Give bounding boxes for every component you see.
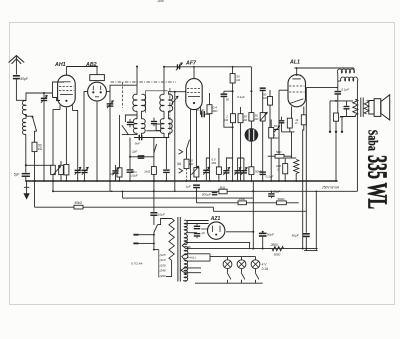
wire antenna lead bbox=[15, 56, 17, 74]
mains lead N bbox=[139, 242, 154, 244]
capacitor 5000pF b bbox=[194, 233, 200, 234]
wire 4ohm down bbox=[335, 121, 337, 181]
speaker cone bbox=[381, 95, 390, 120]
wire k6 to bus dashed bbox=[186, 169, 188, 181]
trimmer arrow C1 bbox=[41, 96, 47, 103]
lamp 1 switch bbox=[227, 272, 231, 279]
svg-text:kΩ: kΩ bbox=[244, 118, 248, 122]
wire top drop to pot bbox=[250, 67, 252, 113]
svg-text:Ω: Ω bbox=[277, 167, 280, 171]
wire tap column bbox=[158, 250, 160, 278]
transformer T1 secondary HV bbox=[184, 220, 187, 233]
wire AH1 cathode lead bbox=[53, 105, 60, 165]
capacitor det bbox=[151, 121, 157, 122]
svg-text:50µF: 50µF bbox=[267, 233, 275, 237]
resistor 50k column k1 bbox=[117, 168, 122, 177]
inductor output primary a bbox=[337, 69, 354, 73]
wire AF7 top cap bbox=[193, 67, 195, 78]
wire plate link column bbox=[329, 101, 331, 132]
resistor 4 ohm bbox=[334, 113, 339, 121]
capacitor 50pF antenna bbox=[13, 75, 20, 77]
capacitor 2uF bbox=[138, 155, 145, 156]
wire output bottom loop bbox=[340, 115, 355, 117]
wire AZ1 feed column bbox=[252, 181, 254, 249]
wire IFT2 bottom bbox=[163, 133, 165, 138]
wire IFT1 link left bbox=[136, 111, 138, 119]
wire main ground bus bbox=[26, 180, 338, 182]
wire AL1 top cap bbox=[296, 68, 298, 76]
wire AZ1 output bbox=[226, 231, 253, 233]
resistor 50k AVC bbox=[32, 142, 37, 151]
resistor det load bbox=[156, 124, 161, 131]
wire 50uF b down bbox=[305, 237, 307, 250]
wire AB2 right lead bbox=[106, 90, 110, 92]
svg-text:5kΩ: 5kΩ bbox=[276, 150, 282, 154]
wire line y211 bbox=[213, 210, 306, 212]
svg-text:kΩ: kΩ bbox=[224, 118, 229, 122]
wire choke left end bbox=[337, 73, 339, 91]
svg-text:5A: 5A bbox=[177, 162, 182, 166]
svg-text:0.1µF: 0.1µF bbox=[197, 108, 205, 112]
resistor 2k det bbox=[151, 167, 156, 175]
wire line y207 bbox=[35, 206, 214, 208]
svg-text:kΩ: kΩ bbox=[263, 96, 268, 100]
resistor AL1 left bbox=[287, 118, 292, 128]
resistor cluster cathode bbox=[51, 165, 56, 174]
resistor 200 ohm cathode bbox=[283, 164, 288, 174]
wire q3 to bus bbox=[232, 123, 234, 181]
wire cap stub bbox=[129, 119, 131, 122]
capacitor tone b bbox=[344, 106, 350, 107]
wire cathode R branch bbox=[284, 158, 286, 164]
wire plate feed IFT2 bbox=[163, 67, 165, 95]
svg-text:(240: (240 bbox=[160, 269, 166, 273]
speaker magnet bbox=[374, 99, 381, 117]
voice coil loop bbox=[369, 101, 374, 115]
lamp 3 switch bbox=[255, 272, 259, 279]
capacitor 5000pF a bbox=[196, 224, 198, 226]
svg-text:AL1: AL1 bbox=[289, 60, 300, 66]
wire S2 bottom bbox=[122, 134, 138, 136]
wire plate link bbox=[330, 100, 353, 102]
switch mains bbox=[154, 225, 158, 233]
wire terminal stub bbox=[341, 117, 343, 132]
svg-text:(220: (220 bbox=[158, 0, 164, 3]
inductor IFT1 lower secondary bbox=[142, 119, 146, 134]
svg-text:(200: (200 bbox=[160, 274, 166, 278]
junction dots top wire bbox=[96, 66, 98, 68]
wire switch to resistor bbox=[35, 131, 37, 142]
resistor 5k feedback bbox=[268, 155, 275, 157]
wire plate feed IFT1 bbox=[136, 67, 138, 95]
wire grid leak down bbox=[270, 105, 279, 129]
wire zigzag to bus bbox=[295, 174, 297, 182]
resistor cluster La bbox=[59, 165, 64, 174]
wire k1 to bus bbox=[119, 177, 121, 181]
capacitor cluster c-a bbox=[205, 173, 207, 181]
capacitor IFT1 tap bbox=[127, 122, 133, 123]
wire y202.8 riser bbox=[196, 191, 198, 203]
wire column k1 bbox=[119, 115, 121, 168]
svg-text:AB2: AB2 bbox=[85, 62, 97, 68]
wire cap to bus2 bbox=[196, 188, 198, 191]
wire bus2 left riser bbox=[52, 181, 54, 191]
svg-text:50pF: 50pF bbox=[20, 77, 29, 81]
svg-text:5nF: 5nF bbox=[135, 142, 141, 146]
wire cap to R bbox=[205, 113, 209, 115]
wire lamp bottom bus bbox=[195, 282, 263, 284]
trimmer arrow AL1 bias bbox=[274, 126, 280, 133]
svg-text:(150: (150 bbox=[160, 263, 166, 267]
transformer T1 secondary heater main bbox=[184, 260, 187, 281]
lamp 2 leads bbox=[241, 257, 243, 260]
tube AZ1 bbox=[208, 222, 225, 239]
wire AL1 lead left bbox=[291, 107, 293, 119]
wire grid line AH1 bbox=[26, 93, 53, 101]
junction dots B+ bbox=[252, 248, 254, 250]
resistor 2k q3 bbox=[231, 114, 236, 123]
field coil 280V bbox=[272, 246, 284, 250]
svg-text:0.1µF: 0.1µF bbox=[237, 95, 245, 99]
tube AB2 top electrode bbox=[90, 75, 105, 81]
junction dots bus2 bbox=[111, 190, 113, 192]
capacitor k5 bbox=[163, 169, 170, 170]
svg-text:0.1µF: 0.1µF bbox=[341, 87, 349, 91]
wire AL1 grid bbox=[279, 89, 288, 91]
wire AH1 screen lead bbox=[73, 105, 78, 169]
wire IFT2 lower right bottom bbox=[168, 133, 170, 138]
capacitor 0.1uF q4 top bbox=[260, 87, 266, 89]
wire line y198 bbox=[123, 197, 254, 199]
capacitor padding trimmer bbox=[43, 93, 45, 97]
svg-text:0.1µF: 0.1µF bbox=[266, 175, 274, 179]
trimmer arrow c-b bbox=[223, 168, 229, 175]
capacitor 0.1uF coupling bbox=[224, 90, 233, 92]
capacitor 25uF bbox=[270, 191, 272, 193]
wire AL1 bias link bbox=[282, 131, 295, 133]
inductor L1 antenna coil bbox=[22, 101, 26, 115]
wire AF7 suppressor bbox=[196, 109, 198, 181]
trimmer arrow c-d bbox=[241, 168, 247, 175]
wire cathode R to bus bbox=[52, 175, 54, 181]
wire AB2 left lead bbox=[84, 92, 88, 170]
lamp 2 bbox=[237, 260, 246, 269]
wire k5 to bus bbox=[165, 173, 167, 181]
wire right column to bus2 bbox=[356, 100, 358, 192]
wire B+ line bbox=[186, 248, 318, 250]
wire bus2 AVC-B bbox=[54, 190, 358, 192]
transformer output zigzag primary bbox=[353, 100, 358, 116]
wire column q2 bbox=[218, 148, 220, 167]
trimmer arrow L-b bbox=[75, 168, 81, 175]
svg-text:2µF: 2µF bbox=[131, 150, 137, 154]
wire AVC column bbox=[174, 92, 176, 192]
capacitor 5uF bbox=[22, 173, 30, 175]
trimmer arrow cathode bbox=[191, 167, 198, 175]
transformer T1 core bbox=[177, 217, 179, 282]
wire det bus2 bbox=[146, 130, 161, 132]
capacitor 50uF a bbox=[262, 231, 264, 234]
svg-text:pF: pF bbox=[201, 231, 206, 235]
wire AL1 plate top bus bbox=[295, 67, 355, 69]
transformer T1 primary zigzag bbox=[169, 219, 174, 261]
wire L2 down to 5uF cap bbox=[25, 134, 27, 172]
resistor 50k pot lower bbox=[249, 167, 254, 175]
wire switch to primary bbox=[158, 219, 172, 225]
capacitor cluster c-c bbox=[237, 173, 239, 181]
wire heater lead b bbox=[187, 232, 197, 234]
pickup contact upper bbox=[179, 149, 183, 154]
svg-text:(125: (125 bbox=[160, 253, 166, 257]
svg-text:50: 50 bbox=[226, 97, 230, 101]
inductor L2 band coil bbox=[22, 118, 25, 134]
wire AL1 lead right bbox=[303, 107, 305, 115]
heater banner C bbox=[181, 268, 201, 273]
transformer T1 secondary heater 2 bbox=[184, 247, 188, 259]
wire q2 to bus bbox=[218, 174, 220, 181]
wire to pot bbox=[250, 121, 252, 129]
capacitor 0.1uF AL1 grid bbox=[279, 120, 285, 121]
svg-text:(110: (110 bbox=[160, 258, 166, 262]
tube AB2 bbox=[88, 82, 107, 101]
wire plate R down bbox=[232, 83, 234, 114]
inductor IFT2 lower right bbox=[169, 119, 173, 134]
grid shield box AH1 bbox=[53, 82, 65, 98]
svg-text:10µF: 10µF bbox=[158, 212, 166, 216]
trimmer arrow L-a bbox=[53, 167, 60, 175]
wire IFT1 tap bbox=[125, 115, 137, 122]
capacitor tone a bbox=[335, 91, 342, 93]
wire AF7 grid bbox=[175, 91, 186, 93]
wire lamp feed bbox=[210, 256, 256, 258]
mains lead L bbox=[139, 234, 154, 236]
capacitor 1uF cathode bbox=[193, 184, 200, 186]
trimmer arrow c-a bbox=[203, 167, 209, 174]
svg-text:50kΩ: 50kΩ bbox=[277, 197, 285, 201]
lamp 1 leads bbox=[227, 257, 229, 260]
svg-text:5kΩ: 5kΩ bbox=[220, 185, 226, 189]
wire resistor to lower line bbox=[34, 152, 36, 208]
wire AH1 anode lead bbox=[65, 108, 67, 165]
wire AF7 cathode bbox=[190, 109, 192, 181]
resistor AH1 anode load bbox=[64, 165, 69, 175]
capacitor 0.1uF anode bbox=[201, 111, 203, 117]
wire k2 to bus bbox=[129, 173, 131, 181]
wire band switch feed bbox=[26, 115, 33, 117]
capacitor cluster c-d bbox=[243, 173, 245, 181]
tube AL1 bbox=[288, 75, 306, 107]
grid shield jog bbox=[53, 98, 61, 101]
wire det res to bus bbox=[153, 174, 155, 181]
shield dash left side bbox=[122, 82, 124, 108]
resistor 1M pot right bbox=[270, 120, 272, 128]
svg-text:0.1A: 0.1A bbox=[262, 267, 269, 271]
svg-text:10µF: 10µF bbox=[131, 173, 138, 177]
capacitor 10uF mains bbox=[153, 174, 155, 211]
resistor 0.5M q2 bbox=[216, 167, 221, 175]
IF can dash side bbox=[169, 88, 171, 136]
svg-text:280V: 280V bbox=[270, 243, 279, 247]
resistor mid 50k bbox=[240, 107, 242, 114]
inductor IFT1 primary bbox=[133, 94, 137, 111]
svg-text:5000: 5000 bbox=[274, 252, 281, 256]
ground bbox=[26, 181, 28, 194]
wire screen column bbox=[305, 88, 307, 233]
trimmer arrow AVC bbox=[172, 97, 178, 104]
svg-text:335 WL: 335 WL bbox=[363, 155, 393, 209]
svg-text:kΩ: kΩ bbox=[255, 117, 260, 121]
resistor 50k bias bbox=[74, 205, 83, 209]
svg-text:AH1: AH1 bbox=[54, 62, 66, 68]
wire IFT1 bottom right bbox=[141, 133, 143, 138]
svg-text:AF7: AF7 bbox=[185, 61, 197, 67]
IF can outline bbox=[146, 91, 168, 113]
transformer T1 secondary rect heater bbox=[184, 234, 187, 245]
wire cathode R to bus bbox=[284, 174, 286, 181]
switch pickup lever bbox=[187, 140, 190, 148]
capacitor trimmer top bbox=[177, 64, 178, 69]
lamp 1 bbox=[223, 260, 232, 269]
resistor 1M lower bbox=[238, 201, 246, 205]
trimmer arrow top bbox=[176, 63, 182, 70]
wire antenna link right bbox=[26, 164, 53, 166]
wire corner down bbox=[353, 68, 355, 73]
shield dash line IF bbox=[111, 81, 177, 83]
svg-text:Saba: Saba bbox=[364, 130, 379, 151]
svg-text:50kΩ: 50kΩ bbox=[74, 201, 82, 205]
wire junction bbox=[25, 114, 27, 116]
wire det cap stub bbox=[153, 118, 155, 121]
resistor 5k bus2 bbox=[219, 189, 227, 194]
resistor grid leak AL1 bbox=[269, 90, 271, 97]
wire grid column bbox=[278, 90, 280, 181]
wire lower right link bbox=[304, 250, 318, 252]
wire AF7 anode lead bbox=[199, 107, 202, 114]
wire to mains switch bbox=[153, 216, 155, 225]
trimmer arrow L-c bbox=[82, 168, 88, 175]
wire column k2 bbox=[129, 138, 131, 170]
wire jog bbox=[212, 207, 214, 211]
svg-text:AZ1: AZ1 bbox=[210, 216, 221, 222]
transformer core lines bbox=[360, 98, 362, 118]
lamp 2 switch bbox=[241, 272, 245, 279]
capacitor 50uF b bbox=[303, 233, 310, 235]
heater banner H=AL1 bbox=[182, 254, 210, 261]
wire column k6 bbox=[186, 148, 188, 159]
lamp 3 bbox=[251, 260, 260, 269]
svg-text:500µF: 500µF bbox=[202, 192, 212, 196]
wire R top stub bbox=[209, 93, 211, 105]
rectifier output banner bbox=[186, 242, 250, 248]
wire cathode split bbox=[285, 157, 296, 159]
switch band S1 bbox=[33, 117, 37, 131]
svg-text:MΩ: MΩ bbox=[274, 136, 279, 140]
capacitor cluster L-c bbox=[81, 170, 87, 171]
inductor IFT2 lower bbox=[160, 119, 164, 134]
svg-text:50µF: 50µF bbox=[292, 233, 300, 237]
svg-text:MΩ: MΩ bbox=[213, 109, 218, 113]
switch det S3 bbox=[154, 144, 157, 153]
capacitor 10uF bbox=[127, 169, 134, 170]
inductor IFT1 secondary bbox=[142, 94, 146, 111]
svg-text:1µF: 1µF bbox=[185, 185, 192, 189]
wire pot to bus bbox=[250, 175, 252, 181]
inductor output primary b bbox=[341, 77, 358, 81]
wire top bus AH1-AB2 bbox=[66, 66, 96, 68]
wire column k5 bbox=[165, 138, 167, 170]
wire winding3 top lead bbox=[187, 246, 191, 248]
trimmer arrow osc bbox=[107, 101, 113, 108]
wire right lower riser bbox=[315, 191, 317, 250]
trimmer arrow padder bbox=[112, 168, 118, 175]
wire IFT1 link right bbox=[141, 111, 143, 119]
wire IFT2 grid tap bbox=[169, 92, 175, 95]
wire antenna to coil bbox=[16, 79, 26, 100]
inductor IFT1 lower primary bbox=[133, 119, 137, 134]
junction dots bus G bbox=[25, 180, 27, 182]
inductor IFT2 secondary bbox=[169, 94, 173, 111]
wire AH1 anode res to bus bbox=[65, 175, 67, 181]
antenna bbox=[9, 56, 25, 63]
svg-text:kΩ: kΩ bbox=[38, 147, 43, 151]
resistor heater hum zigzag bbox=[294, 160, 299, 174]
switch wave band S2 bbox=[122, 125, 129, 134]
trimmer arrow c-c bbox=[235, 168, 241, 175]
wire coupling loop bbox=[224, 97, 233, 127]
tube AF7 bbox=[186, 79, 202, 110]
wire column switch bbox=[153, 138, 155, 167]
capacitor cluster L-b bbox=[75, 170, 81, 171]
capacitor cluster c-b bbox=[225, 173, 227, 181]
resistor 50k plate bbox=[230, 74, 235, 83]
wire line y202.8 bbox=[197, 202, 299, 204]
wire AL1 cathode down bbox=[291, 132, 293, 158]
resistor 50k lower bbox=[277, 201, 287, 205]
wire heater bottom bbox=[183, 280, 187, 282]
wire AB2 bottom lead bbox=[96, 101, 98, 181]
svg-text:5µF: 5µF bbox=[14, 172, 21, 176]
resistor 50k pot feed bbox=[249, 113, 254, 121]
pickup contact lower bbox=[179, 168, 183, 173]
svg-text:2kΩ: 2kΩ bbox=[143, 169, 150, 173]
wire AB2 stem bbox=[96, 67, 98, 75]
terminal dots speaker bbox=[329, 131, 331, 133]
wire output top right bbox=[356, 81, 358, 100]
capacitor 5nF series bbox=[139, 135, 140, 141]
wire osc column bbox=[109, 90, 111, 191]
wire R bottom to bus bbox=[209, 114, 211, 181]
wire IFT2 link bbox=[163, 111, 165, 119]
wire primary bottom bbox=[166, 260, 172, 276]
resistor 0.4M bbox=[207, 105, 212, 114]
svg-text:0.7/1.4A: 0.7/1.4A bbox=[131, 261, 143, 265]
capacitor padder osc lower bbox=[115, 174, 117, 181]
wire 1M to bus bbox=[270, 138, 272, 181]
wire link y156.8 bbox=[130, 156, 154, 158]
capacitor q4 bypass bbox=[260, 171, 266, 172]
inductor IFT2 primary bbox=[160, 94, 164, 111]
svg-text:1MΩ: 1MΩ bbox=[239, 197, 246, 201]
potentiometer volume bbox=[245, 129, 258, 142]
wire switch column to taps bbox=[153, 233, 155, 250]
svg-text:MΩ: MΩ bbox=[211, 161, 216, 165]
transformer secondary zigzag bbox=[364, 101, 369, 115]
tube AH1 bbox=[58, 75, 76, 107]
wire heater lead a bbox=[187, 223, 209, 225]
svg-text:H=AL1: H=AL1 bbox=[187, 255, 196, 259]
resistor cathode pot bbox=[194, 168, 199, 177]
wire HV top lead bbox=[187, 220, 209, 222]
